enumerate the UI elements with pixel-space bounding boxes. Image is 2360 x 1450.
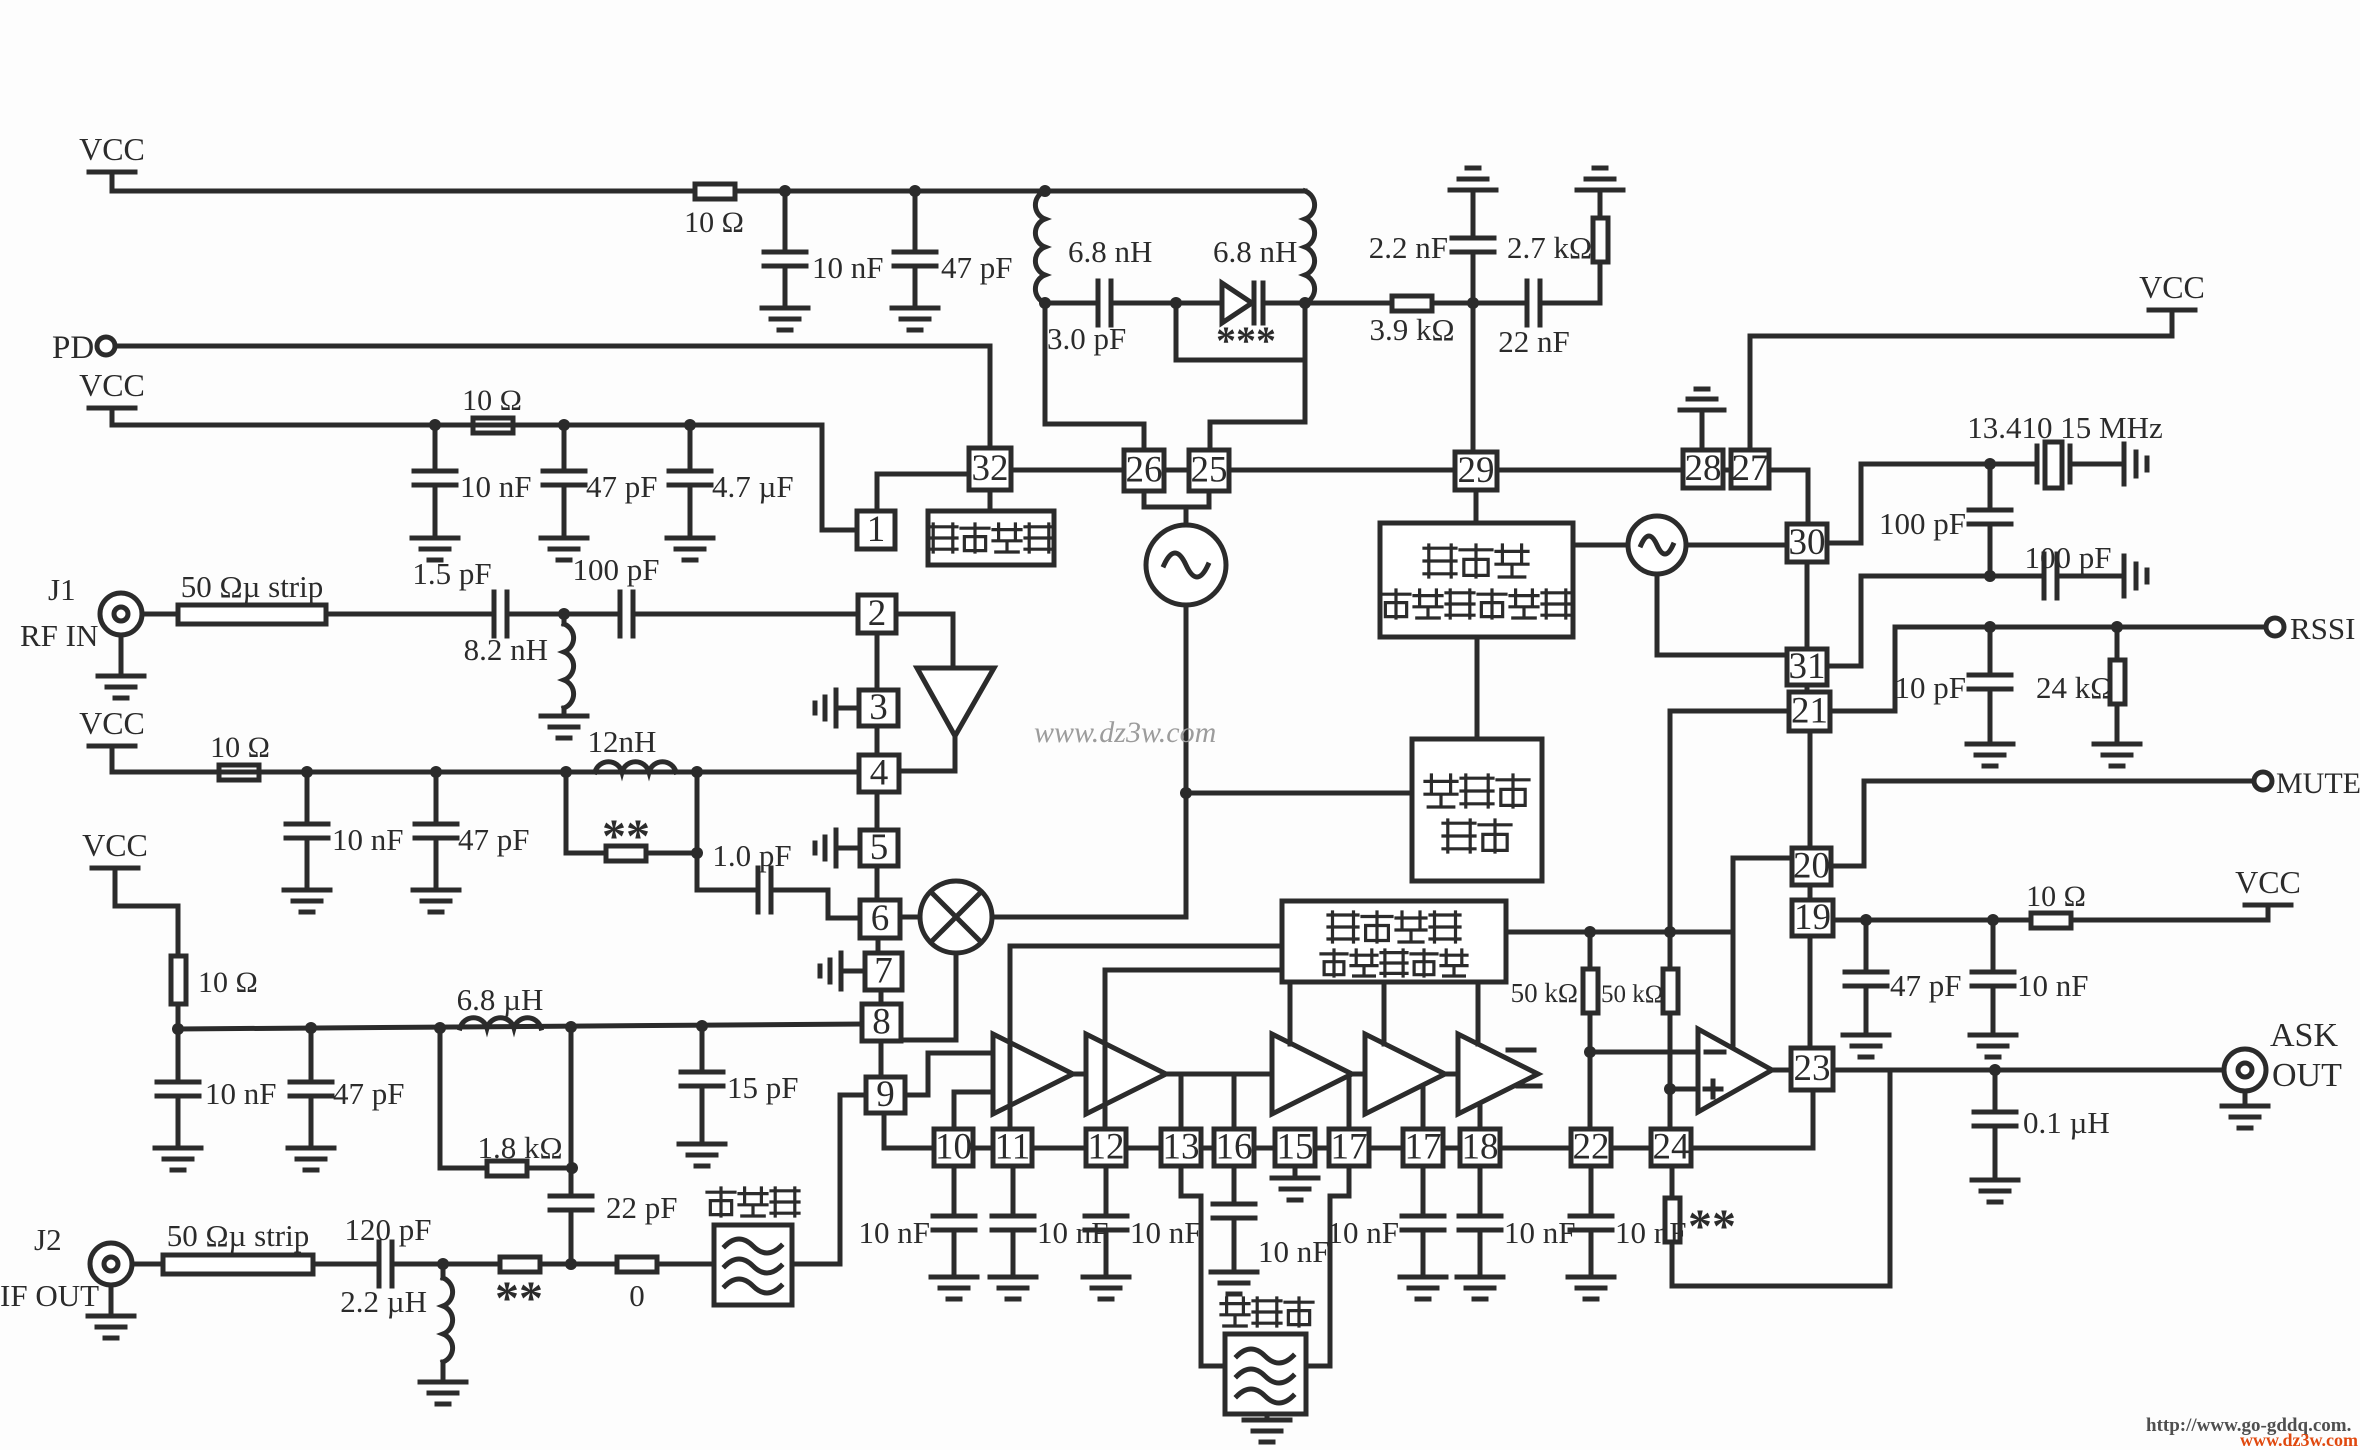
svg-text:2.2 µH: 2.2 µH — [340, 1284, 427, 1319]
resistor 1.8 kOhm — [438, 1028, 443, 1168]
wire pin19-23 — [1808, 936, 1813, 1048]
wire MUTE — [1831, 864, 1864, 869]
resistor 1.8k box — [487, 1161, 527, 1176]
wire 47pF drop — [913, 191, 918, 252]
amplifier A3 — [1272, 1034, 1352, 1114]
svg-text:12: 12 — [1088, 1127, 1125, 1168]
svg-text:10 Ω: 10 Ω — [198, 966, 258, 999]
node rail4-b — [305, 1022, 317, 1034]
IC pin 19 — [1792, 900, 1833, 936]
terminal RSSI — [2266, 618, 2284, 636]
svg-text:J2: J2 — [34, 1222, 62, 1257]
op-amp comparator — [1698, 1029, 1772, 1112]
ground (pin 15) — [1272, 1178, 1318, 1200]
wire pin17b stub — [1421, 1086, 1426, 1129]
capacitor 22 nF — [1527, 281, 1540, 325]
node rail1-b — [909, 185, 921, 197]
wire pin6-pin7 — [876, 938, 881, 953]
IC pin 15 — [1275, 1129, 1315, 1166]
wire RSSI — [1830, 709, 1895, 714]
wire filter1 out to pin 9 — [792, 1262, 840, 1267]
capacitor 47 pF (rail4) — [309, 1028, 314, 1082]
inductor 6.8 nH (right) — [1305, 191, 1315, 303]
wire pin11 riser to LSSI — [1008, 946, 1013, 1129]
IC pin 28 — [1683, 450, 1723, 488]
ground (24k) — [2094, 744, 2140, 766]
wire pin29-pin28 — [1497, 468, 1683, 473]
capacitor 1.5 pF — [494, 592, 507, 636]
ground (100 pF lower, rotated) — [2124, 556, 2147, 596]
cap 47pF pin19 plates — [1845, 972, 1887, 986]
resistor 10 Ohm (rail 3) — [219, 765, 259, 780]
node diode-right — [1299, 297, 1311, 309]
capacitor 100 pF lower plates — [2044, 554, 2057, 598]
wire pin20-19 — [1808, 885, 1813, 900]
wire pin7-pin8 — [879, 990, 884, 1004]
wire pin17a stub — [1347, 1078, 1352, 1129]
wire LSSI right — [1506, 930, 1733, 935]
text filter2 CJK — [1221, 1298, 1249, 1326]
ground (10 pF) — [1967, 744, 2013, 766]
capacitor 100 pF (RF) — [620, 592, 633, 636]
svg-text:2: 2 — [868, 593, 887, 634]
wire to opamp inputs — [1590, 1050, 1698, 1055]
microstrip 50 Ohm (J2) — [132, 1262, 163, 1267]
wire 4.7uF — [688, 425, 693, 471]
capacitor 10 nF pin16 — [1232, 1166, 1237, 1204]
svg-text:2.7 kΩ: 2.7 kΩ — [1507, 230, 1592, 265]
node rail1-c — [1039, 185, 1051, 197]
node 2.2nF — [1467, 297, 1479, 309]
ground (15 pF) — [679, 1144, 725, 1166]
svg-text:100 pF: 100 pF — [2025, 540, 2112, 575]
ground above pin 28 — [1700, 410, 1705, 450]
wire osc1 down to mixer — [1184, 605, 1189, 917]
capacitor 10 nF (rail4) — [176, 1029, 181, 1082]
capacitor 1.0 pF plates — [758, 868, 771, 912]
ground (4.7 uF) — [667, 538, 713, 560]
svg-text:1.0 pF: 1.0 pF — [712, 838, 791, 873]
svg-text:9: 9 — [876, 1074, 895, 1115]
svg-text:10 Ω: 10 Ω — [210, 731, 270, 764]
resistor 10 Ohm (rail 2) — [473, 418, 513, 433]
wire — [836, 706, 859, 711]
wire — [119, 635, 124, 676]
terminal PD — [97, 337, 115, 355]
ground (capacitor 10 nF pin12) — [1083, 1277, 1129, 1299]
wire pin8-pin9 — [879, 1041, 884, 1077]
wire pin16 stub — [1232, 1074, 1237, 1129]
wire VCC rail 5 (pin 19) — [1833, 918, 2031, 923]
inductor 2.2 uH — [441, 1264, 446, 1278]
svg-text:10 Ω: 10 Ω — [2026, 880, 2086, 913]
wire pin13 stub — [1179, 1074, 1184, 1129]
svg-text:47 pF: 47 pF — [586, 469, 658, 504]
wire pin4 left — [697, 770, 859, 775]
inductor 0.1 uH (drawn as cap) — [1993, 1070, 1998, 1112]
svg-text:**: ** — [1688, 1200, 1736, 1253]
wire pin18 stub — [1478, 1104, 1483, 1129]
ground (capacitor 10 nF pin17b) — [1400, 1277, 1446, 1299]
IC pin 11 — [993, 1129, 1032, 1166]
wire rail 3 — [112, 770, 858, 775]
block linear signal strength indicator — [1282, 901, 1506, 982]
wire pin21 left riser — [1670, 709, 1789, 714]
svg-text:VCC: VCC — [2139, 269, 2205, 305]
capacitor 10 nF pin12 — [1085, 1216, 1127, 1230]
wire bus — [1032, 1146, 1086, 1151]
ground (47 pF rail 2) — [541, 538, 587, 560]
wire opamp out to pin23 — [1772, 1068, 1791, 1073]
ground (filter 2) — [1244, 1420, 1290, 1442]
svg-text:**: ** — [495, 1272, 543, 1325]
wire — [695, 772, 700, 890]
inductor 2.2uH coil — [443, 1278, 453, 1362]
wire pin5-pin6 — [875, 866, 880, 900]
svg-text:3.9 kΩ: 3.9 kΩ — [1369, 312, 1454, 347]
ground (2.2uH) — [420, 1382, 466, 1404]
IC pin 16 — [1214, 1129, 1254, 1166]
wire rail 1 cont — [735, 189, 1305, 194]
wire filter2 ground — [1265, 1414, 1270, 1420]
node 47pF5 — [1860, 914, 1872, 926]
wire pin29 to phase box — [1474, 490, 1479, 523]
capacitor 10 nF pin10 — [933, 1216, 975, 1230]
microstrip 50 Ohm — [178, 605, 326, 624]
svg-text:ASK: ASK — [2270, 1017, 2338, 1054]
wire — [783, 266, 788, 308]
wire to prescaler — [1186, 791, 1412, 796]
wire — [1303, 303, 1308, 422]
wire 47pF3 — [434, 772, 439, 824]
svg-text:17: 17 — [1331, 1127, 1368, 1168]
wire mixer bottom to pin 8 — [954, 953, 959, 1040]
ground (J2) — [88, 1316, 134, 1338]
capacitor 10 nF pin11 — [992, 1216, 1034, 1230]
connector J1 RF IN — [100, 593, 142, 635]
svg-text:10: 10 — [935, 1127, 972, 1168]
svg-text:4: 4 — [870, 753, 889, 794]
svg-text:12nH: 12nH — [588, 724, 657, 759]
node rail2-c — [684, 419, 696, 431]
terminal MUTE — [2254, 772, 2272, 790]
IC pin 29 — [1455, 452, 1497, 490]
block filter 1 (lü bo qi) — [714, 1225, 792, 1305]
IC pin 5 — [860, 830, 898, 866]
IC pin 3 — [859, 690, 898, 726]
wire pin10 to amp1 — [952, 1092, 957, 1129]
svg-text:VCC: VCC — [2235, 864, 2301, 900]
node 12nH left — [560, 766, 572, 778]
capacitor 100 pF upper plates — [1969, 510, 2011, 524]
svg-text:10 nF: 10 nF — [1258, 1234, 1330, 1269]
IC pin 25 — [1189, 450, 1229, 491]
ground (2.7k, inverted) — [1577, 168, 1623, 190]
wire varactor bypass loop — [1174, 303, 1179, 360]
svg-text:10 nF: 10 nF — [460, 469, 532, 504]
IC pin 30 — [1787, 524, 1827, 562]
node rail1-a — [779, 185, 791, 197]
wire 10nF3 — [305, 772, 310, 824]
wire stem — [110, 408, 115, 425]
IC pin 23 — [1791, 1048, 1833, 1090]
svg-text:120 pF: 120 pF — [345, 1212, 432, 1247]
wire — [1111, 301, 1222, 306]
IC pin 17 — [1403, 1129, 1443, 1166]
ground (ASK OUT) — [2222, 1106, 2268, 1128]
node 22pF bottom — [565, 1258, 577, 1270]
node 2.2uH — [437, 1258, 449, 1270]
wire bus — [973, 1146, 993, 1151]
wire pin30-31 — [1805, 562, 1810, 649]
capacitor 47 pF (pin19) — [1864, 920, 1869, 972]
svg-text:25: 25 — [1191, 450, 1228, 491]
wire bus — [1126, 1146, 1161, 1151]
capacitor 10 pF — [1988, 627, 1993, 675]
svg-text:10 nF: 10 nF — [812, 250, 884, 285]
svg-text:16: 16 — [1216, 1127, 1253, 1168]
text prescaler line2 — [1443, 820, 1475, 852]
cap 47pF rail4 plates — [290, 1082, 332, 1096]
svg-text:5: 5 — [870, 827, 889, 868]
capacitor 3.0 pF — [1098, 281, 1111, 325]
wire bus — [1369, 1146, 1403, 1151]
svg-text:RF IN: RF IN — [20, 618, 98, 653]
wire pin1 to pin32 — [875, 474, 880, 511]
wire PD to pin 32 — [115, 344, 990, 349]
varactor diode *** — [1222, 283, 1252, 323]
node rail4-d — [565, 1021, 577, 1033]
crystal 13.410 15 MHz — [2035, 446, 2040, 482]
wire to pin 2 — [633, 612, 858, 617]
wire pin3-pin4 — [875, 726, 880, 755]
wire pin20 feedback riser — [1731, 858, 1736, 1045]
IC pin 18 — [1460, 1129, 1500, 1166]
wire bus — [1443, 1146, 1460, 1151]
IC pin 21 — [1789, 692, 1830, 731]
svg-text:22 nF: 22 nF — [1498, 324, 1570, 359]
wire pin4-pin5 — [875, 792, 880, 830]
wire VCC1 stem — [110, 172, 115, 191]
node 3.0pF-diode — [1170, 297, 1182, 309]
wire osc2 bottom to pin31 — [1655, 574, 1660, 655]
connector J2 IF OUT — [90, 1243, 132, 1285]
svg-text:8.2 nH: 8.2 nH — [464, 632, 548, 667]
wire amp1-amp2 — [1073, 1072, 1086, 1077]
wire pin30 right riser — [1827, 541, 1861, 546]
wire — [1540, 301, 1600, 306]
svg-text:47 pF: 47 pF — [333, 1076, 405, 1111]
ground (2.2 nF, inverted) — [1450, 168, 1496, 190]
ground (J1) — [98, 676, 144, 698]
wire amp2-amp3 — [1166, 1072, 1272, 1077]
wire bus — [1254, 1146, 1275, 1151]
cap 10nF rail4 plates — [157, 1082, 199, 1096]
wire pin2-pin3 — [875, 633, 880, 690]
capacitor 120 pF — [379, 1242, 392, 1286]
inductor 6.8 nH (left) — [1035, 191, 1045, 303]
oscillator circle (crystal osc) — [1628, 516, 1686, 574]
resistor 10 Ohm (pin19) — [2031, 913, 2071, 928]
svg-text:22: 22 — [1573, 1127, 1610, 1168]
IC pin 2 — [858, 595, 896, 633]
svg-text:50 kΩ: 50 kΩ — [1601, 981, 1663, 1008]
ground (capacitor 10 nF pin11) — [990, 1277, 1036, 1299]
cap 15pF plates — [681, 1072, 723, 1086]
resistor ** (matching) — [564, 772, 569, 853]
block filter 2 — [1225, 1334, 1306, 1414]
svg-text:22 pF: 22 pF — [606, 1190, 678, 1225]
svg-text:28: 28 — [1685, 448, 1722, 489]
IC pin 1 — [857, 511, 895, 549]
inductor 8.2 nH coil — [564, 624, 574, 708]
svg-text:10 pF: 10 pF — [1895, 670, 1967, 705]
svg-text:100 pF: 100 pF — [1879, 506, 1966, 541]
node ** right — [691, 847, 703, 859]
text prescaler line1 — [1425, 775, 1457, 807]
resistor 10 Ohm vertical — [171, 956, 186, 1004]
ground (pin 7, rotated) — [820, 953, 841, 989]
wire — [913, 266, 918, 308]
ground (pin 5, rotated) — [815, 830, 836, 866]
resistor 50 kOhm (left) — [1583, 969, 1598, 1013]
wire to pin 25 — [1210, 420, 1305, 425]
wire phase box to prescaler — [1475, 637, 1480, 739]
capacitor 2.2 nF plates — [1452, 238, 1494, 252]
text filter1 CJK — [707, 1188, 735, 1216]
svg-text:27: 27 — [1732, 448, 1769, 489]
wire pin28-27 — [1723, 468, 1731, 473]
wire pin6-mixer — [900, 915, 920, 920]
svg-text:47 pF: 47 pF — [941, 250, 1013, 285]
wire pin31 right riser — [1827, 664, 1861, 669]
amplifier A2 — [1086, 1034, 1166, 1114]
svg-text:19: 19 — [1794, 897, 1831, 938]
ground (47pF pin19) — [1843, 1035, 1889, 1057]
ground (pin16 cap) — [1211, 1272, 1257, 1294]
ground (0.1uH) — [1972, 1180, 2018, 1202]
wire bus — [1315, 1146, 1329, 1151]
text LSSI line1 — [1328, 912, 1358, 942]
wire — [1263, 301, 1305, 306]
svg-text:3: 3 — [869, 687, 888, 728]
svg-text:47 pF: 47 pF — [458, 822, 530, 857]
wire — [836, 846, 860, 851]
ground (capacitor 10 nF pin18) — [1457, 1277, 1503, 1299]
node osc-prescaler — [1180, 787, 1192, 799]
inductor 8.2 nH — [562, 614, 567, 624]
svg-text:29: 29 — [1458, 450, 1495, 491]
wire 3.9k row — [1305, 301, 1392, 306]
ground (47 pF rail 1) — [892, 308, 938, 330]
svg-text:RSSI: RSSI — [2290, 611, 2355, 646]
resistor 2.7 kOhm — [1598, 262, 1603, 303]
capacitor 4.7 uF — [669, 471, 711, 485]
svg-text:**: ** — [602, 810, 650, 863]
IC pin 20 — [1792, 848, 1831, 885]
node 1.8k right — [566, 1162, 578, 1174]
wire pin27 top to VCC — [1748, 336, 1753, 450]
svg-text:VCC: VCC — [82, 827, 148, 863]
IC pin 6 — [860, 900, 900, 938]
wire osc2 left to phase detector — [1573, 543, 1628, 548]
node rail3-b — [430, 766, 442, 778]
capacitor 10 nF (rail 2) — [414, 471, 456, 485]
svg-text:50 kΩ: 50 kΩ — [1511, 978, 1578, 1008]
svg-text:***: *** — [1216, 318, 1276, 363]
wire bus — [1611, 1146, 1651, 1151]
svg-text:15: 15 — [1277, 1127, 1314, 1168]
svg-text:VCC: VCC — [79, 705, 145, 741]
wire pin12 riser to LSSI — [1103, 970, 1108, 1129]
capacitor 10 nF (pin19) — [1991, 920, 1996, 972]
wire 2.2nF node to pin 29 — [1471, 303, 1476, 452]
wire pin26 top — [1142, 448, 1147, 453]
wire ASK OUT — [1833, 1068, 2224, 1073]
ground (10 nF rail 1) — [762, 308, 808, 330]
wire 50k-1 — [1588, 932, 1593, 969]
ground (10nF pin19) — [1970, 1035, 2016, 1057]
svg-text:10 nF: 10 nF — [1328, 1215, 1400, 1250]
resistor 24 kOhm — [2115, 627, 2120, 660]
svg-text:10 nF: 10 nF — [205, 1076, 277, 1111]
ground (47 pF rail 3) — [413, 890, 459, 912]
amplifier A4 — [1365, 1034, 1445, 1114]
svg-text:50 Ωµ strip: 50 Ωµ strip — [181, 569, 324, 604]
node 10pF — [1984, 621, 1996, 633]
capacitor 2.2 nF — [1471, 252, 1476, 303]
capacitor 47 pF (rail 3) — [415, 824, 457, 838]
wire 22pF chain — [569, 1027, 574, 1196]
connector ASK OUT — [2224, 1049, 2266, 1091]
node 24k — [2111, 621, 2123, 633]
IC pin 17 — [1329, 1129, 1369, 1166]
svg-text:17: 17 — [1405, 1127, 1442, 1168]
wire rail2 to pin 1 — [820, 425, 825, 530]
wire — [1478, 1166, 1483, 1216]
IC pin 8 — [862, 1004, 901, 1041]
IC pin 4 — [859, 755, 899, 792]
svg-text:6.8 nH: 6.8 nH — [1068, 234, 1152, 269]
wire — [142, 612, 178, 617]
oscillator (VCO) circle — [1146, 525, 1226, 605]
ground (8.2 nH) — [541, 716, 587, 738]
text phase-det line2 — [1382, 590, 1410, 618]
resistor 3.9 kOhm — [1392, 296, 1432, 311]
LNA amplifier — [896, 612, 953, 617]
svg-text:10 Ω: 10 Ω — [462, 384, 522, 417]
svg-text:18: 18 — [1462, 1127, 1499, 1168]
svg-text:10 nF: 10 nF — [332, 822, 404, 857]
wire pin25 right — [1229, 468, 1455, 473]
node 10nF5 — [1987, 914, 1999, 926]
wire — [1589, 1166, 1594, 1216]
IC pin 24 — [1651, 1129, 1691, 1166]
svg-text:21: 21 — [1791, 691, 1828, 732]
block prescaler — [1412, 739, 1542, 881]
block DC bias (zhi liu pian zhi) — [928, 511, 1054, 565]
wire pin32 to pin26 — [1011, 468, 1124, 473]
wire 47pF2 — [562, 425, 567, 471]
node rail2-a — [429, 419, 441, 431]
wire — [1011, 1166, 1016, 1216]
svg-text:24: 24 — [1653, 1127, 1690, 1168]
ground (10 nF rail 3) — [284, 890, 330, 912]
node rail4-origin — [172, 1023, 184, 1035]
svg-text:13: 13 — [1163, 1127, 1200, 1168]
svg-text:20: 20 — [1793, 846, 1830, 887]
wire pin9 right to amp1 — [905, 1093, 928, 1098]
